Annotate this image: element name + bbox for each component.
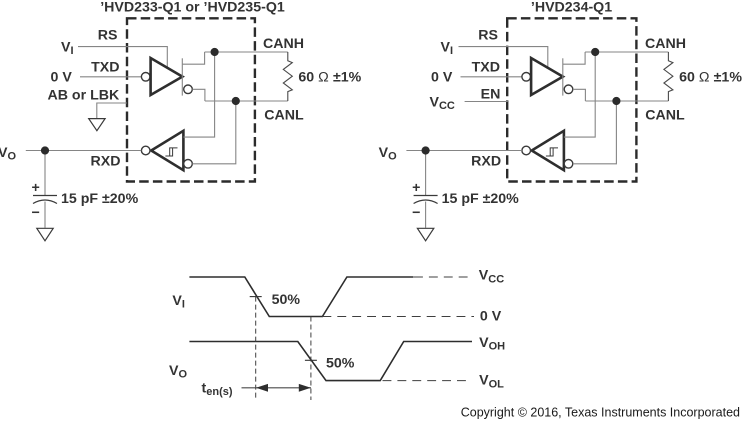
- receiver R1 output bubble: [141, 146, 150, 155]
- receiver R2 inverting input bubble: [564, 160, 573, 169]
- svg-text:Copyright © 2016, Texas Instru: Copyright © 2016, Texas Instruments Inco…: [461, 406, 740, 420]
- svg-text:’HVD233-Q1 or ’HVD235-Q1: ’HVD233-Q1 or ’HVD235-Q1: [100, 0, 285, 16]
- svg-text:60 Ω±1%: 60 Ω±1%: [298, 70, 361, 86]
- driver D1 input bubble: [141, 73, 150, 82]
- receiver R2 triangle: [532, 131, 564, 170]
- svg-text:0 V: 0 V: [51, 70, 73, 86]
- wire receiver bottom input from CANL (right): [573, 101, 617, 164]
- svg-text:CANH: CANH: [645, 36, 686, 52]
- wire CANL rail (right): [585, 100, 668, 102]
- svg-text:RS: RS: [98, 28, 118, 44]
- driver D1 triangle: [151, 58, 183, 95]
- capacitor C2 top plate: [414, 195, 438, 197]
- svg-text:CANL: CANL: [264, 108, 304, 124]
- wire VI to RS pin: [78, 47, 167, 68]
- waveform VI 50% tick: [250, 296, 262, 298]
- junction node CANH (right): [591, 48, 599, 56]
- svg-text:VO: VO: [379, 145, 397, 163]
- junction node CANL: [232, 97, 240, 105]
- wire VI to RS pin (right): [459, 47, 548, 68]
- svg-text:VO: VO: [169, 363, 187, 381]
- wire 0V to TXD pin (right): [461, 76, 522, 78]
- waveform VCC dashed level line: [414, 276, 468, 278]
- ground G2 (capacitor): [37, 228, 53, 241]
- wire receiver top input from CANH (right): [564, 52, 595, 137]
- wire driver bottom output to CANL: [192, 89, 205, 101]
- svg-text:RXD: RXD: [471, 154, 501, 170]
- svg-text:−: −: [412, 205, 420, 221]
- wire VO to RXD pin (right): [406, 150, 522, 152]
- driver D1 inverted output bubble: [184, 85, 193, 94]
- ground G1 (AB or LBK): [89, 119, 105, 131]
- receiver R1 triangle: [151, 131, 183, 170]
- svg-text:VOH: VOH: [479, 335, 505, 353]
- svg-text:VI: VI: [172, 293, 185, 311]
- wire capacitor to ground (right): [425, 202, 427, 228]
- waveform left vertical dashed cursor: [255, 297, 257, 400]
- resistor RL2 60 ohm: [664, 52, 673, 101]
- svg-text:0 V: 0 V: [480, 309, 502, 325]
- waveform VOL dashed level line: [383, 380, 470, 382]
- waveform ten(s) left arrowhead: [256, 384, 268, 392]
- svg-text:RXD: RXD: [91, 154, 121, 170]
- junction node CANL (right): [612, 97, 620, 105]
- svg-text:VOL: VOL: [479, 373, 504, 391]
- waveform ten(s) arrow shaft: [242, 387, 312, 389]
- svg-text:VO: VO: [0, 145, 16, 163]
- waveform VO trace: [189, 342, 472, 381]
- svg-text:+: +: [32, 180, 40, 196]
- capacitor C1 top plate: [33, 195, 57, 197]
- svg-text:VI: VI: [441, 40, 454, 58]
- wire receiver bottom input from CANL: [192, 101, 235, 164]
- junction node CANH: [211, 48, 219, 56]
- wire VO to RXD pin: [26, 150, 142, 152]
- receiver R1 inverting input bubble: [184, 160, 193, 169]
- svg-text:VI: VI: [61, 40, 74, 58]
- wire VCC to EN pin: [465, 101, 508, 103]
- svg-text:15 pF ±20%: 15 pF ±20%: [442, 191, 520, 207]
- svg-text:ten(s): ten(s): [202, 381, 233, 399]
- wire AB or LBK to box: [97, 103, 127, 118]
- svg-text:AB or LBK: AB or LBK: [48, 88, 120, 104]
- waveform VO 50% tick: [305, 359, 317, 361]
- wire driver bottom output to CANL (right): [573, 89, 586, 101]
- driver D1 output bar: [181, 58, 183, 95]
- svg-text:RS: RS: [478, 28, 498, 44]
- waveform right vertical dashed cursor: [310, 317, 312, 401]
- driver D2 triangle: [531, 58, 563, 95]
- svg-text:−: −: [32, 205, 40, 221]
- svg-text:+: +: [412, 180, 420, 196]
- junction node VO: [41, 146, 49, 154]
- driver D2 inverted output bubble: [564, 85, 573, 94]
- receiver R2 hysteresis symbol: [546, 148, 558, 156]
- wire CANH rail (right): [585, 51, 668, 53]
- wire driver top output to CANH (right): [563, 52, 585, 64]
- IC U2 boundary dashed box: [507, 18, 636, 181]
- junction node VO (right): [422, 146, 430, 154]
- svg-text:VCC: VCC: [430, 94, 455, 112]
- svg-text:CANH: CANH: [263, 36, 304, 52]
- driver D2 output bar: [562, 58, 564, 95]
- svg-text:50%: 50%: [326, 356, 355, 372]
- waveform VI trace: [189, 277, 413, 317]
- wire VO node to capacitor: [44, 151, 46, 196]
- wire VO node to capacitor (right): [425, 151, 427, 196]
- svg-text:0 V: 0 V: [431, 70, 453, 86]
- svg-text:EN: EN: [481, 87, 501, 103]
- driver D2 input bubble: [522, 73, 531, 82]
- receiver R2 output bubble: [522, 146, 531, 155]
- waveform ten(s) right arrowhead: [299, 384, 311, 392]
- resistor RL1 60 ohm: [283, 52, 292, 101]
- wire receiver top input from CANH: [183, 52, 214, 137]
- svg-text:TXD: TXD: [472, 60, 500, 76]
- capacitor C2 bottom plate arc: [414, 200, 438, 204]
- waveform 0V dashed level line: [322, 316, 474, 318]
- svg-text:CANL: CANL: [645, 108, 685, 124]
- svg-text:15 pF ±20%: 15 pF ±20%: [61, 191, 139, 207]
- svg-text:’HVD234-Q1: ’HVD234-Q1: [531, 0, 612, 16]
- svg-text:50%: 50%: [272, 292, 301, 308]
- wire CANH rail: [205, 51, 288, 53]
- svg-text:TXD: TXD: [91, 60, 119, 76]
- wire CANL rail: [205, 100, 288, 102]
- IC U1 boundary dashed box: [127, 18, 255, 181]
- capacitor C1 bottom plate arc: [33, 200, 57, 204]
- wire 0V to TXD pin: [80, 76, 141, 78]
- wire driver top output to CANH: [182, 52, 204, 64]
- ground G3 (capacitor right): [417, 228, 433, 241]
- svg-text:VCC: VCC: [479, 268, 504, 286]
- svg-text:60 Ω±1%: 60 Ω±1%: [679, 70, 742, 86]
- receiver R1 hysteresis symbol: [165, 148, 177, 156]
- wire capacitor to ground: [44, 202, 46, 228]
